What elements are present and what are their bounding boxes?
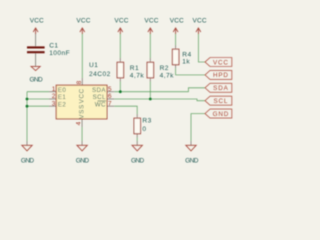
svg-text:4: 4: [76, 121, 83, 125]
svg-text:U1: U1: [89, 62, 98, 69]
svg-text:4,7k: 4,7k: [130, 72, 145, 79]
svg-text:E2: E2: [58, 101, 67, 108]
svg-text:2: 2: [52, 93, 56, 100]
svg-text:GND: GND: [213, 111, 230, 118]
svg-text:4,7k: 4,7k: [160, 72, 175, 79]
svg-text:VSS: VSS: [78, 104, 85, 119]
svg-text:R3: R3: [142, 117, 151, 124]
svg-text:SCL: SCL: [93, 94, 106, 101]
svg-text:7: 7: [108, 100, 112, 107]
svg-text:WC: WC: [95, 101, 106, 108]
svg-text:GND: GND: [76, 157, 90, 164]
svg-text:VCC: VCC: [114, 18, 128, 25]
svg-text:6: 6: [108, 93, 112, 100]
svg-text:E0: E0: [58, 87, 67, 94]
svg-text:VCC: VCC: [144, 18, 158, 25]
svg-text:VCC: VCC: [193, 18, 207, 25]
svg-text:1k: 1k: [182, 58, 190, 65]
svg-text:3: 3: [52, 100, 56, 107]
svg-text:E1: E1: [58, 94, 67, 101]
svg-text:VCC: VCC: [78, 88, 85, 103]
svg-text:SDA: SDA: [92, 87, 106, 94]
svg-text:GND: GND: [29, 76, 43, 83]
svg-text:VCC: VCC: [213, 59, 229, 66]
svg-text:VCC: VCC: [30, 18, 44, 25]
svg-text:R2: R2: [160, 65, 169, 72]
svg-text:0: 0: [142, 126, 146, 133]
svg-text:1: 1: [52, 86, 56, 93]
svg-text:GND: GND: [131, 157, 145, 164]
svg-text:100nF: 100nF: [49, 50, 70, 57]
svg-text:8: 8: [76, 80, 83, 84]
svg-text:GND: GND: [185, 157, 199, 164]
svg-text:GND: GND: [21, 157, 35, 164]
svg-text:VCC: VCC: [76, 18, 90, 25]
svg-text:5: 5: [108, 86, 112, 93]
svg-text:SDA: SDA: [213, 85, 229, 92]
svg-text:R1: R1: [130, 65, 139, 72]
svg-text:C1: C1: [49, 42, 58, 49]
svg-text:VCC: VCC: [170, 18, 184, 25]
svg-text:24C02: 24C02: [89, 71, 111, 78]
svg-text:SCL: SCL: [213, 98, 228, 105]
svg-text:HPD: HPD: [213, 72, 229, 79]
